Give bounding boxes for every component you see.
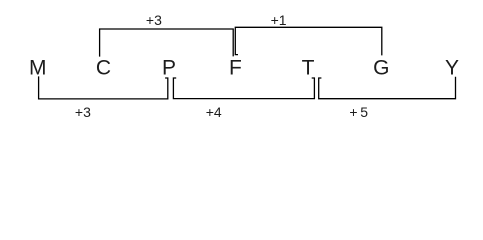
svg-text:+1: +1 [271,12,287,28]
svg-text:+3: +3 [146,12,162,28]
svg-text:+ 5: + 5 [349,104,368,120]
svg-text:F: F [229,57,242,80]
svg-text:T: T [302,57,315,80]
svg-text:C: C [96,57,111,80]
svg-text:P: P [162,57,176,80]
svg-text:+3: +3 [75,104,91,120]
svg-text:M: M [29,57,47,80]
svg-text:Y: Y [445,57,459,80]
svg-text:+4: +4 [206,104,222,120]
svg-text:G: G [373,57,389,80]
